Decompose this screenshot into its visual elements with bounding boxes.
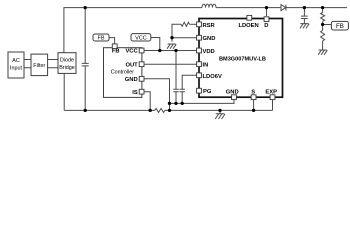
- svg-text:AC: AC: [12, 58, 20, 64]
- wire AC-to-Filter pair: [24, 60, 31, 68]
- junction dot bottom rail S: [252, 109, 255, 112]
- wire FB label to controller FB pin: [109, 38, 115, 45]
- capacitor C-in plates: [82, 63, 89, 66]
- svg-text:LDO6V: LDO6V: [203, 74, 222, 80]
- junction dot top rail at C-in: [84, 6, 87, 9]
- pin square IC IN: [197, 62, 202, 67]
- junction dot C-out: [303, 6, 306, 9]
- capacitor C-ldo wire bottom: [181, 92, 183, 104]
- net label FB left box: [93, 34, 109, 41]
- block AC Input: [8, 52, 24, 78]
- resistor R-fb-bottom: [321, 31, 325, 41]
- wire FB divider node: [322, 21, 324, 30]
- svg-text:D: D: [264, 23, 268, 29]
- wire controller GND drop: [144, 79, 170, 111]
- svg-text:FB: FB: [112, 49, 120, 55]
- junction dot bottom rail ground tap: [218, 109, 221, 112]
- svg-text:GND: GND: [203, 36, 216, 42]
- svg-text:VCC: VCC: [135, 35, 147, 41]
- svg-text:LDOEN: LDOEN: [238, 23, 258, 29]
- wire top rail left segment: [64, 8, 202, 53]
- capacitor C-vdd plates: [173, 89, 178, 91]
- capacitor C-out wire bottom: [303, 19, 305, 24]
- capacitor C-ldo plates: [180, 89, 185, 91]
- svg-text:Input: Input: [10, 66, 22, 72]
- capacitor C-vdd wire bottom: [175, 92, 177, 104]
- junction dot bottom rail ctl-gnd: [168, 109, 171, 112]
- pin square IC GND-bottom: [232, 95, 237, 100]
- svg-text:FB: FB: [336, 23, 344, 30]
- ground divider: [318, 50, 327, 55]
- pin square IC GND-left: [197, 35, 202, 40]
- svg-text:VCC: VCC: [125, 49, 138, 55]
- pin square controller FB: [112, 44, 117, 49]
- junction dot cap1 gnd: [174, 102, 177, 105]
- wire GND line y103: [170, 100, 235, 104]
- wire top rail middle segment: [216, 7, 281, 9]
- wire bottom rail left segment: [64, 109, 155, 111]
- block Diode Bridge: [58, 53, 76, 74]
- capacitor C-vdd wire top: [175, 51, 177, 90]
- svg-text:IS: IS: [132, 90, 138, 96]
- wire IC GND pin: [172, 37, 197, 39]
- wire FB node to FB label: [323, 24, 332, 26]
- pin square IC S: [251, 95, 256, 100]
- wire RSR to ground node: [172, 24, 181, 42]
- junction dot VDD cap tap: [174, 49, 177, 52]
- pin square IC PG: [197, 88, 202, 93]
- diode D1: [281, 5, 286, 11]
- svg-text:Filter: Filter: [33, 63, 45, 69]
- ground bottom rail: [215, 114, 225, 119]
- pin square IC EXP: [270, 95, 275, 100]
- wire D pin drop: [266, 8, 268, 16]
- svg-text:BM3G007MUV-LB: BM3G007MUV-LB: [219, 56, 266, 62]
- inductor L1: [202, 4, 216, 7]
- resistor R-rsr: [181, 22, 189, 26]
- junction dot bottom rail IS: [149, 109, 152, 112]
- pin square IC LDO6V: [197, 73, 202, 78]
- resistor R-fb-top lead: [322, 8, 324, 13]
- resistor R-sense: [155, 108, 165, 112]
- svg-text:IN: IN: [203, 63, 209, 69]
- svg-text:S: S: [251, 90, 255, 96]
- svg-text:OUT: OUT: [125, 62, 138, 68]
- wire LDO6V: [182, 75, 196, 89]
- wire EXP pin stub: [272, 100, 274, 111]
- pin square IC VDD: [197, 48, 202, 53]
- pin square IC LDOEN: [247, 15, 252, 20]
- junction dot divider top: [321, 6, 324, 9]
- wire IS drop: [144, 92, 150, 111]
- svg-text:PG: PG: [203, 89, 212, 95]
- wire OUT to IN: [144, 63, 197, 65]
- block Filter: [31, 54, 48, 76]
- svg-text:EXP: EXP: [265, 90, 277, 96]
- svg-text:FB: FB: [97, 36, 104, 42]
- pin square controller VCC: [139, 48, 144, 53]
- wire bottom ground stem: [219, 110, 221, 113]
- resistor R-fb-bottom lead: [322, 41, 324, 50]
- wire diode-bridge bottom drop: [63, 73, 65, 110]
- capacitor C-in vertical wire top: [84, 8, 86, 64]
- junction dot FB divider: [321, 23, 324, 26]
- ground output cap: [300, 24, 309, 29]
- pin square controller GND: [139, 76, 144, 81]
- wire RSR left lead: [190, 23, 197, 25]
- svg-text:Bridge: Bridge: [59, 65, 75, 71]
- svg-text:RSR: RSR: [203, 23, 216, 29]
- resistor R-fb-top: [321, 13, 325, 22]
- wire bottom rail right segment: [165, 109, 273, 111]
- svg-text:Controller: Controller: [111, 70, 135, 76]
- svg-text:VDD: VDD: [203, 49, 215, 55]
- capacitor C-out wire: [303, 8, 305, 17]
- junction dot RSR/GND node: [170, 36, 173, 39]
- junction dot VCC tap: [158, 49, 161, 52]
- capacitor C-out plates: [301, 16, 308, 18]
- svg-text:GND: GND: [226, 90, 239, 96]
- net label VCC box: [131, 34, 151, 41]
- junction dot cap2 gnd: [181, 102, 184, 105]
- block Controller: [104, 48, 142, 98]
- svg-text:GND: GND: [125, 77, 138, 83]
- pin square IC D: [264, 17, 269, 22]
- capacitor C-in wire bottom: [84, 66, 86, 111]
- junction dot gnd line left: [168, 102, 171, 105]
- pin square controller OUT: [139, 62, 144, 67]
- pin square controller IS: [139, 89, 144, 94]
- wire VCC/VDD bus: [144, 50, 197, 52]
- wire VCC label drop: [151, 38, 160, 51]
- ground near RSR: [167, 44, 176, 49]
- IC U1 BM3G007MUV-LB outline: [199, 19, 283, 98]
- wire top rail right segment: [286, 7, 347, 9]
- junction dot bottom rail C-in: [84, 109, 87, 112]
- net label FB right box: [331, 21, 348, 30]
- svg-text:Diode: Diode: [60, 58, 74, 64]
- wire Filter-to-Bridge pair: [48, 60, 58, 68]
- wire S pin stub: [253, 100, 255, 111]
- pin square IC RSR: [197, 22, 202, 27]
- junction dot D pin: [265, 6, 268, 9]
